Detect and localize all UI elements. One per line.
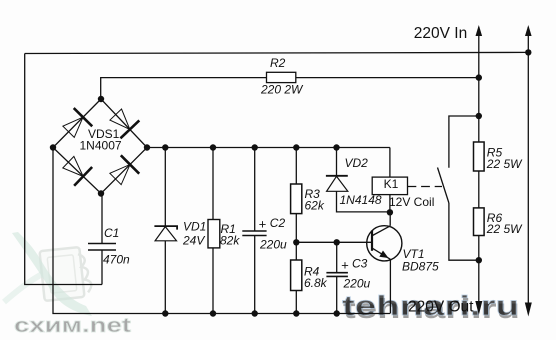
svg-text:1N4148: 1N4148 (340, 193, 382, 207)
svg-text:470n: 470n (103, 253, 130, 267)
svg-text:220u: 220u (259, 238, 287, 252)
svg-text:6.8k: 6.8k (304, 276, 328, 290)
svg-text:220 2W: 220 2W (260, 83, 304, 97)
svg-text:82k: 82k (220, 234, 240, 248)
svg-text:220V In: 220V In (414, 25, 467, 42)
svg-text:VD1: VD1 (183, 220, 206, 234)
svg-text:C1: C1 (104, 226, 119, 240)
svg-text:C2: C2 (270, 216, 286, 230)
svg-text:+: + (341, 258, 349, 273)
svg-text:22 5W: 22 5W (486, 222, 523, 236)
svg-text:C3: C3 (352, 257, 368, 271)
svg-text:22 5W: 22 5W (486, 157, 523, 171)
svg-text:K1: K1 (384, 177, 399, 191)
svg-text:220V Out: 220V Out (408, 299, 474, 316)
svg-text:12V Coil: 12V Coil (389, 195, 434, 209)
svg-text:cxим.net: cxим.net (14, 315, 131, 337)
svg-text:24V: 24V (182, 234, 205, 248)
svg-text:R2: R2 (270, 56, 286, 70)
svg-text:220u: 220u (343, 277, 371, 291)
svg-text:+: + (259, 217, 267, 232)
svg-text:VD2: VD2 (345, 156, 369, 170)
svg-text:62k: 62k (305, 199, 325, 213)
svg-text:BD875: BD875 (402, 260, 439, 274)
svg-text:1N4007: 1N4007 (80, 139, 122, 153)
